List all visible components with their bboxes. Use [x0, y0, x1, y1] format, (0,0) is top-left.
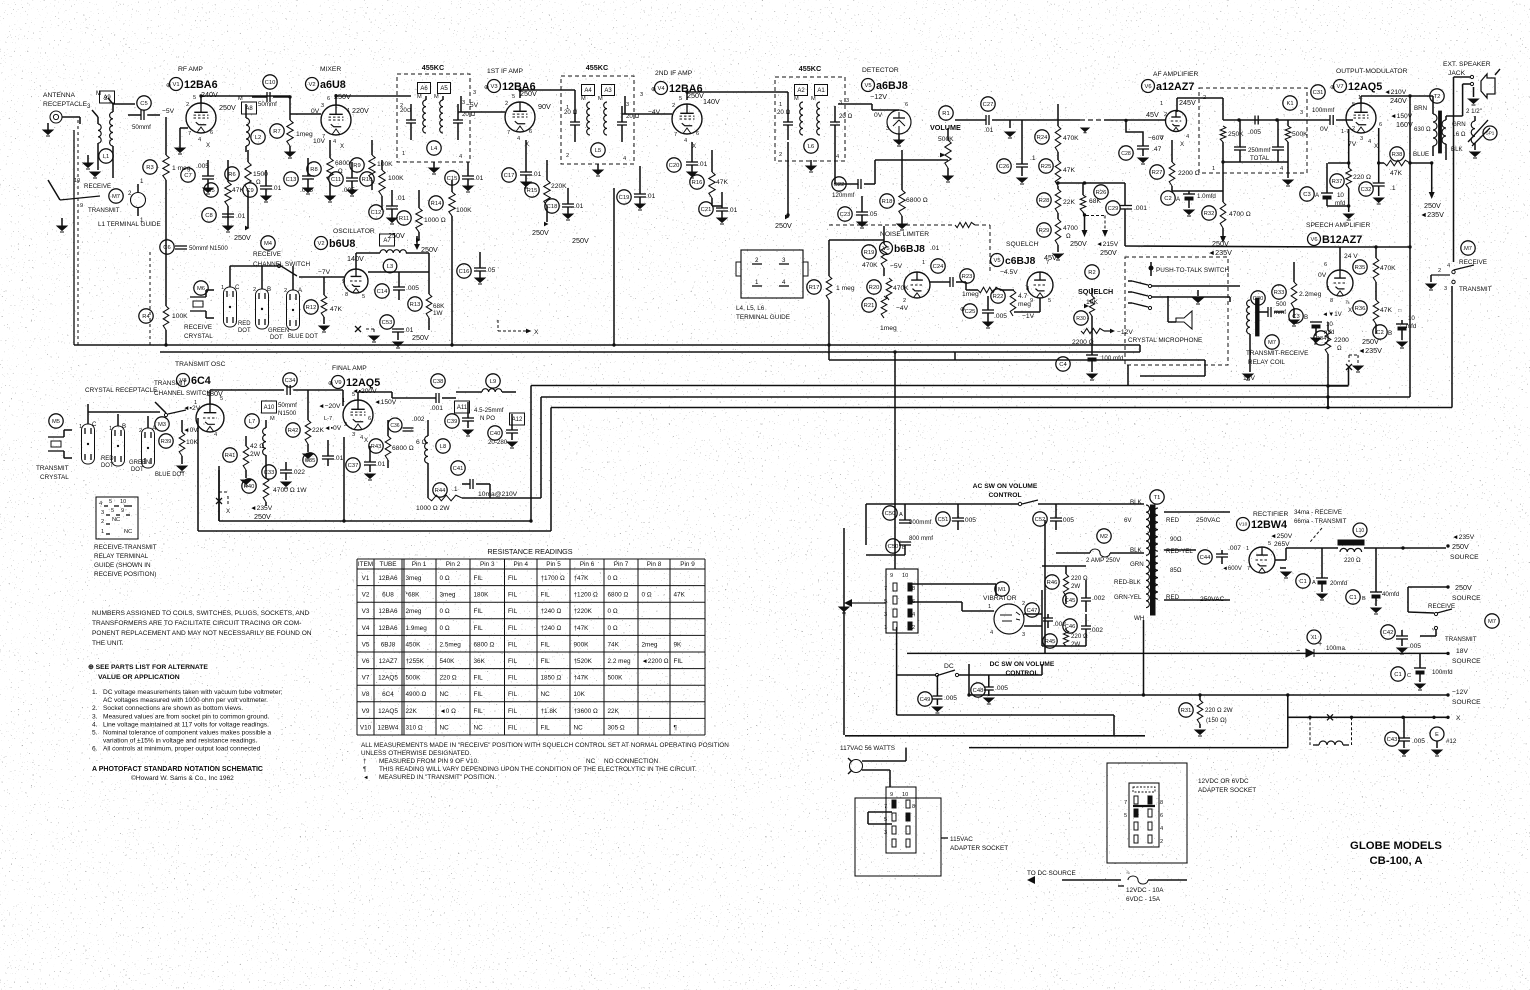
svg-text:NUMBERS ASSIGNED TO COILS, SWI: NUMBERS ASSIGNED TO COILS, SWITCHES, PLU… — [92, 610, 309, 617]
IFT1 primary coil L4 — [423, 100, 426, 133]
resistor R46 — [1045, 575, 1059, 589]
svg-text:R21: R21 — [864, 303, 875, 309]
T1 secondary winding — [1154, 508, 1158, 551]
svg-text:JACK: JACK — [1448, 70, 1466, 77]
svg-text:240V: 240V — [201, 90, 218, 99]
svg-text:900K: 900K — [574, 641, 590, 648]
svg-text:C34: C34 — [285, 378, 296, 384]
svg-text:V6: V6 — [1310, 237, 1317, 243]
svg-text:−12V: −12V — [870, 92, 887, 101]
resistor R37 — [1330, 174, 1344, 188]
wire L1 bottom — [97, 143, 99, 170]
svg-text:CRYSTAL RECEPTACLE: CRYSTAL RECEPTACLE — [85, 387, 157, 394]
box A3 — [602, 85, 615, 96]
svg-text:V10: V10 — [1239, 522, 1248, 528]
svg-text:3: 3 — [886, 126, 889, 132]
capacitor C22 — [832, 177, 846, 191]
capacitor C44 — [1198, 550, 1212, 564]
capacitor C1B — [1346, 590, 1360, 604]
svg-text:SOURCE: SOURCE — [1452, 699, 1481, 706]
svg-text:ADAPTER SOCKET: ADAPTER SOCKET — [1198, 787, 1256, 794]
svg-text:6: 6 — [210, 130, 213, 136]
label 250V under R15 — [544, 222, 549, 227]
svg-text:2: 2 — [779, 152, 782, 158]
svg-text:2: 2 — [139, 428, 142, 434]
receive crystal socket B — [256, 289, 269, 329]
svg-text:C24: C24 — [933, 264, 944, 270]
svg-text:.01: .01 — [396, 195, 406, 202]
svg-text:−60V: −60V — [1148, 135, 1164, 142]
capacitor C7 — [181, 168, 195, 182]
svg-text:C1: C1 — [1349, 595, 1356, 601]
svg-text:NC: NC — [440, 691, 450, 698]
wire IFT3 to V5 — [838, 103, 872, 105]
svg-text:†240 Ω: †240 Ω — [541, 625, 562, 632]
svg-text:6: 6 — [1324, 262, 1327, 268]
resistor R5 — [204, 183, 218, 197]
svg-text:BRN: BRN — [1414, 105, 1427, 112]
svg-text:C16: C16 — [459, 269, 470, 275]
svg-text:NC: NC — [112, 517, 120, 523]
svg-text:RED: RED — [1166, 517, 1180, 524]
svg-text:74K: 74K — [608, 641, 620, 648]
svg-text:SP1: SP1 — [1486, 131, 1495, 136]
svg-text:2: 2 — [253, 287, 256, 293]
svg-text:⊕: ⊕ — [484, 84, 489, 91]
svg-text:47K: 47K — [716, 179, 728, 186]
svg-text:◄600V: ◄600V — [1222, 566, 1242, 572]
svg-text:250V: 250V — [572, 236, 589, 245]
svg-text:X: X — [1456, 715, 1461, 722]
svg-text:◄235V: ◄235V — [1452, 534, 1475, 541]
tube V7 name — [1334, 80, 1347, 93]
svg-text:RED-BLK: RED-BLK — [1114, 579, 1142, 586]
18V source line — [1044, 520, 1046, 653]
vibrator buffer box wires — [1041, 590, 1043, 646]
svg-text:9K: 9K — [674, 641, 683, 648]
svg-text:C35: C35 — [305, 458, 316, 464]
svg-text:3: 3 — [1360, 136, 1363, 142]
svg-text:◄250V: ◄250V — [1270, 533, 1293, 540]
resistor R29 — [1037, 223, 1051, 237]
svg-text:B: B — [1388, 330, 1392, 337]
svg-text:L10: L10 — [1356, 528, 1365, 534]
svg-text:R34: R34 — [1316, 336, 1327, 342]
wire heater column x895 — [894, 352, 896, 569]
svg-text:BLK: BLK — [1130, 547, 1143, 554]
svg-text:V10: V10 — [360, 724, 372, 731]
dashed 215V branch — [1086, 215, 1105, 217]
capacitor C41 — [451, 461, 465, 475]
bus line B+ receiver bottom 1 — [74, 344, 1140, 346]
svg-text:2: 2 — [1022, 601, 1025, 607]
wire squelch bus jog x955 — [954, 352, 956, 360]
svg-text:20 Ω: 20 Ω — [777, 109, 791, 116]
IF transformer T455 no2 dashed box — [561, 76, 634, 164]
svg-text:1: 1 — [1212, 166, 1215, 172]
svg-text:FIL: FIL — [541, 641, 551, 648]
svg-text:M: M — [598, 96, 603, 102]
wire V2 grid — [290, 113, 321, 115]
capacitor C9 — [243, 183, 257, 197]
capacitor C36 — [388, 418, 402, 432]
svg-text:7: 7 — [1124, 800, 1127, 806]
box A9 — [100, 91, 115, 103]
svg-text:4: 4 — [782, 279, 786, 286]
svg-text:2: 2 — [186, 102, 189, 108]
svg-text:R36: R36 — [1355, 306, 1366, 312]
svg-text:†1.8K: †1.8K — [541, 708, 558, 715]
svg-text:TRANSMIT: TRANSMIT — [1445, 636, 1477, 643]
resistor R23 — [960, 269, 974, 283]
tube V2 6U8 — [321, 105, 351, 135]
svg-text:220 Ω: 220 Ω — [440, 675, 457, 682]
svg-text:RED: RED — [101, 456, 114, 462]
svg-text:NC: NC — [574, 724, 584, 731]
svg-text:5: 5 — [884, 817, 887, 823]
svg-text:C47: C47 — [1027, 608, 1038, 614]
wire transmit bottom left verticals — [218, 470, 220, 521]
svg-text:.01: .01 — [984, 127, 994, 134]
svg-text:4: 4 — [1447, 263, 1450, 269]
svg-text:.002: .002 — [1092, 595, 1105, 602]
DC switch lever — [935, 673, 938, 676]
svg-text:M3: M3 — [158, 422, 166, 428]
resistor R25 — [1039, 159, 1053, 173]
svg-text:C50: C50 — [888, 544, 899, 550]
svg-text:.01: .01 — [728, 207, 738, 214]
svg-text:250V: 250V — [1455, 583, 1472, 592]
capacitor C18 — [545, 199, 559, 213]
svg-text:X: X — [340, 143, 344, 150]
resistor R33 — [1272, 285, 1286, 299]
svg-text:1850 Ω: 1850 Ω — [541, 675, 562, 682]
svg-text:R20: R20 — [869, 285, 880, 291]
svg-text:1: 1 — [566, 105, 569, 111]
svg-text:RECTIFIER: RECTIFIER — [1253, 511, 1288, 518]
svg-text:+: + — [1318, 639, 1322, 648]
svg-text:.022: .022 — [292, 469, 305, 476]
tube V6 name — [1142, 80, 1155, 93]
dashed shield x150 — [149, 252, 151, 345]
TO DC SOURCE arrow — [1027, 876, 1035, 884]
svg-text:M5: M5 — [52, 419, 60, 425]
svg-text:C42: C42 — [1383, 630, 1394, 636]
wire L3 to 250V and R13 — [406, 252, 429, 254]
box A8 — [242, 102, 257, 114]
svg-text:R13: R13 — [410, 302, 421, 308]
capacitor C49 — [918, 692, 932, 706]
capacitor C6 — [160, 240, 174, 254]
wire T2 top to V7 plate — [1361, 95, 1433, 97]
tube V1 name — [170, 78, 183, 91]
svg-text:UNLESS OTHERWISE DESIGNATED.: UNLESS OTHERWISE DESIGNATED. — [361, 750, 472, 757]
svg-text:6: 6 — [1160, 813, 1163, 819]
wire IFT2 to V4 — [624, 96, 626, 114]
squelch control R2 — [1085, 265, 1099, 279]
svg-text:V1: V1 — [362, 575, 370, 582]
svg-text:C45: C45 — [1065, 598, 1076, 604]
svg-text:3: 3 — [839, 100, 842, 106]
svg-text:R44: R44 — [435, 488, 446, 494]
svg-text:115VAC: 115VAC — [950, 836, 973, 843]
svg-text:0V: 0V — [1318, 272, 1327, 279]
svg-text:◄0V: ◄0V — [183, 427, 198, 434]
resistor R41 — [223, 448, 237, 462]
svg-text:†220K: †220K — [574, 608, 593, 615]
wire left border vertical — [73, 130, 75, 345]
box A6 — [418, 83, 431, 94]
svg-text:RELAY COIL: RELAY COIL — [1248, 359, 1285, 366]
svg-text:1: 1 — [109, 426, 112, 432]
svg-text:C23: C23 — [840, 212, 851, 218]
svg-text:R25: R25 — [1041, 164, 1052, 170]
svg-text:RESISTANCE READINGS: RESISTANCE READINGS — [487, 547, 572, 556]
svg-text:.47: .47 — [1152, 146, 1162, 153]
tube V3 name — [488, 80, 501, 93]
bus 1 right vertical x1348 — [1348, 368, 1350, 386]
svg-text:2W: 2W — [1071, 641, 1080, 648]
svg-text:mfd: mfd — [1406, 323, 1417, 330]
svg-text:MEASURED IN "TRANSMIT" POSITIO: MEASURED IN "TRANSMIT" POSITION. — [379, 774, 496, 781]
svg-text:C17: C17 — [504, 173, 515, 179]
svg-text:B: B — [267, 286, 271, 293]
svg-text:50mmf N1500: 50mmf N1500 — [189, 245, 228, 252]
svg-text:L5: L5 — [595, 148, 601, 154]
svg-text:¶: ¶ — [674, 724, 678, 731]
svg-text:C3: C3 — [1292, 314, 1299, 320]
svg-text:C29: C29 — [1108, 206, 1119, 212]
svg-text:R32: R32 — [1204, 211, 1215, 217]
capacitor C21 — [699, 202, 713, 216]
svg-text:0V: 0V — [874, 112, 883, 119]
svg-text:250VAC: 250VAC — [1196, 517, 1221, 524]
tube V8 name — [177, 374, 190, 387]
svg-text:3: 3 — [1022, 632, 1025, 638]
svg-text:9: 9 — [121, 508, 124, 514]
svg-text:C4: C4 — [1059, 362, 1067, 368]
svg-text:.005: .005 — [1412, 738, 1425, 745]
IFT2 secondary coil — [604, 102, 607, 135]
power supply left vertical — [865, 504, 867, 545]
interstage network dashed box — [1199, 88, 1307, 173]
tube V4 12BA6 — [672, 104, 702, 134]
svg-text:40mfd: 40mfd — [1382, 591, 1400, 598]
capacitor C17 — [502, 168, 516, 182]
svg-text:5: 5 — [109, 499, 112, 505]
svg-text:.002: .002 — [1090, 627, 1103, 634]
wire squelch agc rail y183 — [1058, 182, 1125, 184]
IF transformer T455 no1 dashed box — [397, 74, 470, 162]
bus 1 left vertical x531 — [530, 386, 532, 522]
svg-text:6800 Ω: 6800 Ω — [392, 445, 414, 452]
svg-text:RED: RED — [238, 321, 251, 327]
svg-text:12BW4: 12BW4 — [1251, 519, 1287, 531]
svg-text:SOURCE: SOURCE — [1452, 658, 1481, 665]
capacitor C14 — [375, 284, 389, 298]
tube V6b 12AZ7 — [1327, 270, 1353, 296]
svg-text:CRYSTAL: CRYSTAL — [40, 474, 69, 481]
115VAC adapter outer box — [855, 798, 941, 876]
svg-text:−5V: −5V — [890, 263, 903, 270]
svg-text:3: 3 — [640, 92, 643, 98]
box A10 — [262, 401, 277, 413]
svg-text:VIBRATOR: VIBRATOR — [983, 595, 1017, 602]
capacitor C46 — [1063, 619, 1077, 633]
svg-text:C: C — [1407, 673, 1411, 679]
tube V5 name — [862, 79, 875, 92]
svg-text:FIL: FIL — [474, 691, 484, 698]
capacitor .005 interstage — [1254, 116, 1256, 125]
svg-text:R14: R14 — [431, 201, 442, 207]
resistor R17 — [807, 280, 821, 294]
svg-text:250V: 250V — [421, 245, 438, 254]
svg-text:N1500: N1500 — [278, 410, 297, 417]
svg-text:−5V: −5V — [466, 102, 479, 109]
svg-text:1: 1 — [347, 108, 350, 114]
svg-text:GREEN: GREEN — [129, 460, 150, 466]
svg-text:◄: ◄ — [363, 775, 369, 781]
svg-text:0V: 0V — [1320, 126, 1329, 133]
svg-text:⅞: ⅞ — [1345, 300, 1350, 306]
svg-text:10K: 10K — [186, 439, 198, 446]
svg-text:5: 5 — [1124, 813, 1127, 819]
svg-text:10: 10 — [120, 499, 126, 505]
svg-text:50mmf: 50mmf — [258, 101, 277, 108]
fuse M2 — [1097, 529, 1111, 543]
svg-text:V7: V7 — [1336, 84, 1343, 90]
junction dots plate rail — [199, 94, 202, 97]
svg-text:4: 4 — [684, 138, 687, 144]
svg-text:455KC: 455KC — [799, 64, 821, 73]
svg-text:NOISE LIMITER: NOISE LIMITER — [880, 231, 929, 238]
transmit crystal M5 — [49, 414, 63, 428]
svg-text:◄215V: ◄215V — [1096, 241, 1119, 248]
svg-text:R41: R41 — [225, 453, 236, 459]
resistor R3 — [143, 160, 157, 174]
svg-text:6: 6 — [327, 96, 330, 102]
wire antenna coupling to C5 — [113, 103, 135, 105]
svg-text:X: X — [1348, 307, 1352, 314]
svg-text:L1 TERMINAL GUIDE: L1 TERMINAL GUIDE — [98, 221, 161, 228]
wire V2b plate to L3 — [355, 253, 357, 269]
svg-text:C40: C40 — [490, 431, 501, 437]
L1 circle ref — [99, 149, 113, 163]
12VDC adapter socket — [1129, 783, 1159, 847]
svg-text:12AZ7: 12AZ7 — [379, 658, 398, 665]
svg-text:4700: 4700 — [1063, 225, 1078, 232]
resistor R11 — [397, 211, 411, 225]
svg-text:1000 Ω: 1000 Ω — [424, 217, 446, 224]
svg-text:TUBE: TUBE — [379, 561, 396, 568]
tube V2 name — [306, 78, 319, 91]
svg-text:L6: L6 — [808, 144, 814, 150]
svg-text:SOURCE: SOURCE — [1452, 595, 1481, 602]
svg-text:(150 Ω): (150 Ω) — [1206, 717, 1227, 724]
svg-text:.005: .005 — [1408, 643, 1421, 650]
svg-text:M4: M4 — [264, 241, 273, 247]
capacitor C12 — [369, 205, 383, 219]
svg-text:Ω: Ω — [1337, 345, 1342, 352]
resistor R8 — [307, 162, 321, 176]
wire interstage down to R32 — [1222, 162, 1224, 196]
svg-text:V9: V9 — [362, 708, 370, 715]
svg-text:2: 2 — [1160, 839, 1163, 845]
svg-text:B: B — [122, 423, 126, 430]
wire IFT1 input — [335, 96, 337, 105]
svg-text:C5: C5 — [140, 101, 147, 107]
svg-text:GREEN: GREEN — [268, 328, 289, 334]
svg-text:C14: C14 — [377, 289, 388, 295]
svg-text:M: M — [811, 96, 816, 102]
svg-text:4: 4 — [198, 137, 201, 143]
svg-text:FIL: FIL — [541, 724, 551, 731]
svg-text:1meg: 1meg — [880, 325, 897, 332]
svg-text:2meg: 2meg — [406, 608, 422, 615]
capacitor C25 — [963, 304, 977, 318]
svg-text:6800 Ω: 6800 Ω — [906, 197, 928, 204]
svg-text:M: M — [270, 416, 275, 422]
svg-text:470K: 470K — [1380, 265, 1396, 272]
svg-text:A2: A2 — [797, 88, 805, 94]
svg-text:C2: C2 — [1164, 196, 1171, 202]
svg-text:C48: C48 — [973, 688, 984, 694]
svg-text:R5: R5 — [207, 188, 214, 194]
svg-text:a6U8: a6U8 — [320, 79, 346, 91]
IFT2 cap right — [617, 121, 627, 123]
svg-text:9: 9 — [342, 279, 345, 285]
svg-text:A: A — [899, 512, 903, 518]
wire T2 secondary bottom — [1445, 144, 1447, 160]
svg-text:R43: R43 — [371, 444, 382, 450]
speaker SP1 coil — [1471, 121, 1475, 144]
svg-text:TOTAL: TOTAL — [1250, 155, 1270, 162]
svg-text:450K: 450K — [406, 641, 422, 648]
AVC dashed line with resistor — [829, 224, 955, 226]
capacitor C45 — [1063, 593, 1077, 607]
svg-text:A6: A6 — [420, 86, 428, 92]
svg-text:2: 2 — [128, 190, 132, 197]
svg-text:V6: V6 — [1144, 84, 1151, 90]
svg-text:A3: A3 — [604, 88, 612, 94]
tube V4 name — [655, 82, 668, 95]
svg-text:3: 3 — [462, 100, 465, 106]
svg-text:4: 4 — [1186, 134, 1189, 140]
svg-text:C3: C3 — [1303, 192, 1310, 198]
svg-text:R12: R12 — [306, 305, 317, 311]
capacitor C29 — [1106, 201, 1120, 215]
svg-text:FIL: FIL — [508, 608, 518, 615]
transmit channel switch lever — [168, 410, 186, 414]
svg-text:CHANNEL SWITCH: CHANNEL SWITCH — [154, 390, 212, 397]
svg-text:100mmf: 100mmf — [1312, 107, 1335, 114]
svg-text:SPEECH AMPLIFIER: SPEECH AMPLIFIER — [1306, 222, 1370, 229]
capacitor C52 — [1033, 512, 1047, 526]
resistor R20 — [867, 280, 881, 294]
ground symbol mid — [87, 155, 89, 163]
svg-text:1: 1 — [884, 625, 887, 631]
svg-text:A10: A10 — [264, 405, 275, 411]
svg-text:470K: 470K — [1063, 135, 1079, 142]
svg-text:3: 3 — [626, 102, 629, 108]
PTT switch contacts — [1132, 281, 1148, 285]
svg-text:470K: 470K — [893, 285, 909, 292]
svg-text:1: 1 — [1246, 546, 1249, 552]
resistor R34 — [1314, 331, 1328, 345]
svg-text:10K: 10K — [574, 691, 586, 698]
svg-text:2: 2 — [1352, 126, 1355, 132]
wire squelch B+ to speech amp rail — [1125, 246, 1340, 247]
